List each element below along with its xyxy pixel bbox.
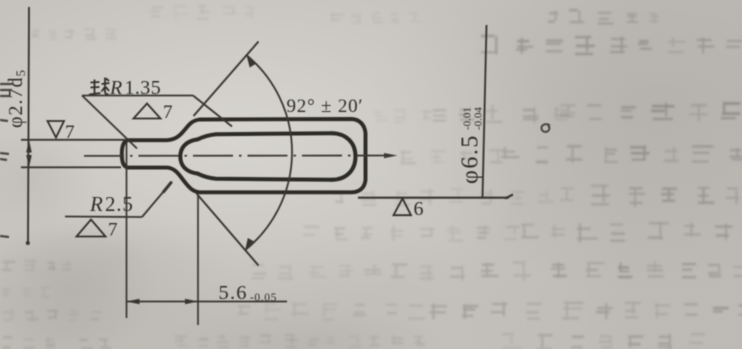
part outline (valve stem: spherical tip, small stem, cone flare, head cylinder) [122,119,366,192]
label phi6.5 with tolerances (rotated) [458,107,485,184]
phi2.7 arrow up [26,140,32,153]
phi2.7 extension line top [21,139,128,141]
svg-text:R: R [89,192,103,216]
label ball R1.35: hand-drawn CJK char QIU [89,78,110,95]
triangle finish mark 7 under R1.35 [134,104,161,119]
svg-text:2.5: 2.5 [105,192,134,216]
svg-text:-0.05: -0.05 [250,292,277,304]
cone angle extension line upper [194,42,259,117]
centerline (dash-dot axis) [84,155,386,157]
svg-text:92° ± 20′: 92° ± 20′ [287,96,364,117]
svg-text:6: 6 [414,198,424,220]
triangle finish mark 6 on head [394,199,412,216]
dimension phi6.5 line [483,25,487,198]
5.6 dimension line [127,301,288,303]
triangle finish mark 7 under R2.5 [77,220,106,237]
cone angle extension line lower [197,194,259,266]
label phi2.7d5 (rotated) [5,69,28,128]
5.6 arrow left [127,299,140,305]
centerline right arrowhead [384,153,398,158]
svg-text:7: 7 [163,102,173,123]
dimension 5.6: left extension line [126,142,128,318]
svg-text:7: 7 [108,220,118,241]
leader underline for ball R1.35 [82,95,193,97]
R2.5 underline [65,216,142,219]
svg-text:φ6.5: φ6.5 [458,134,484,184]
5.6 arrow right [185,299,198,305]
phi2.7 extension line bottom [21,166,121,168]
svg-text:5.6: 5.6 [219,282,248,304]
phi2.7 arrow down [26,155,32,167]
leader to sphere tip [82,96,137,149]
R2.5 leader to fillet [142,182,172,218]
bottom extension line rightward [358,197,509,199]
dimension phi2.7d5 : vertical dimension line [28,7,29,243]
left margin dark marks [0,84,14,237]
inner bore (sphere-bottom hole shown in section) [180,133,355,180]
svg-text:φ2.7d5: φ2.7d5 [5,69,28,128]
tick at right end of extension line [505,195,513,199]
arc arrowhead top (tangent) [246,54,255,68]
arc arrowhead bottom (tangent) [245,238,254,252]
92 degree dimension arc [245,55,292,250]
5.6 right extension line [197,196,199,325]
handwritten sigma mark [541,124,550,132]
surface finish mark (nabla)7 on stem [48,121,65,138]
svg-text:7: 7 [65,122,75,143]
leader to bore sphere [193,96,232,127]
svg-text:-0.04: -0.04 [473,107,485,130]
